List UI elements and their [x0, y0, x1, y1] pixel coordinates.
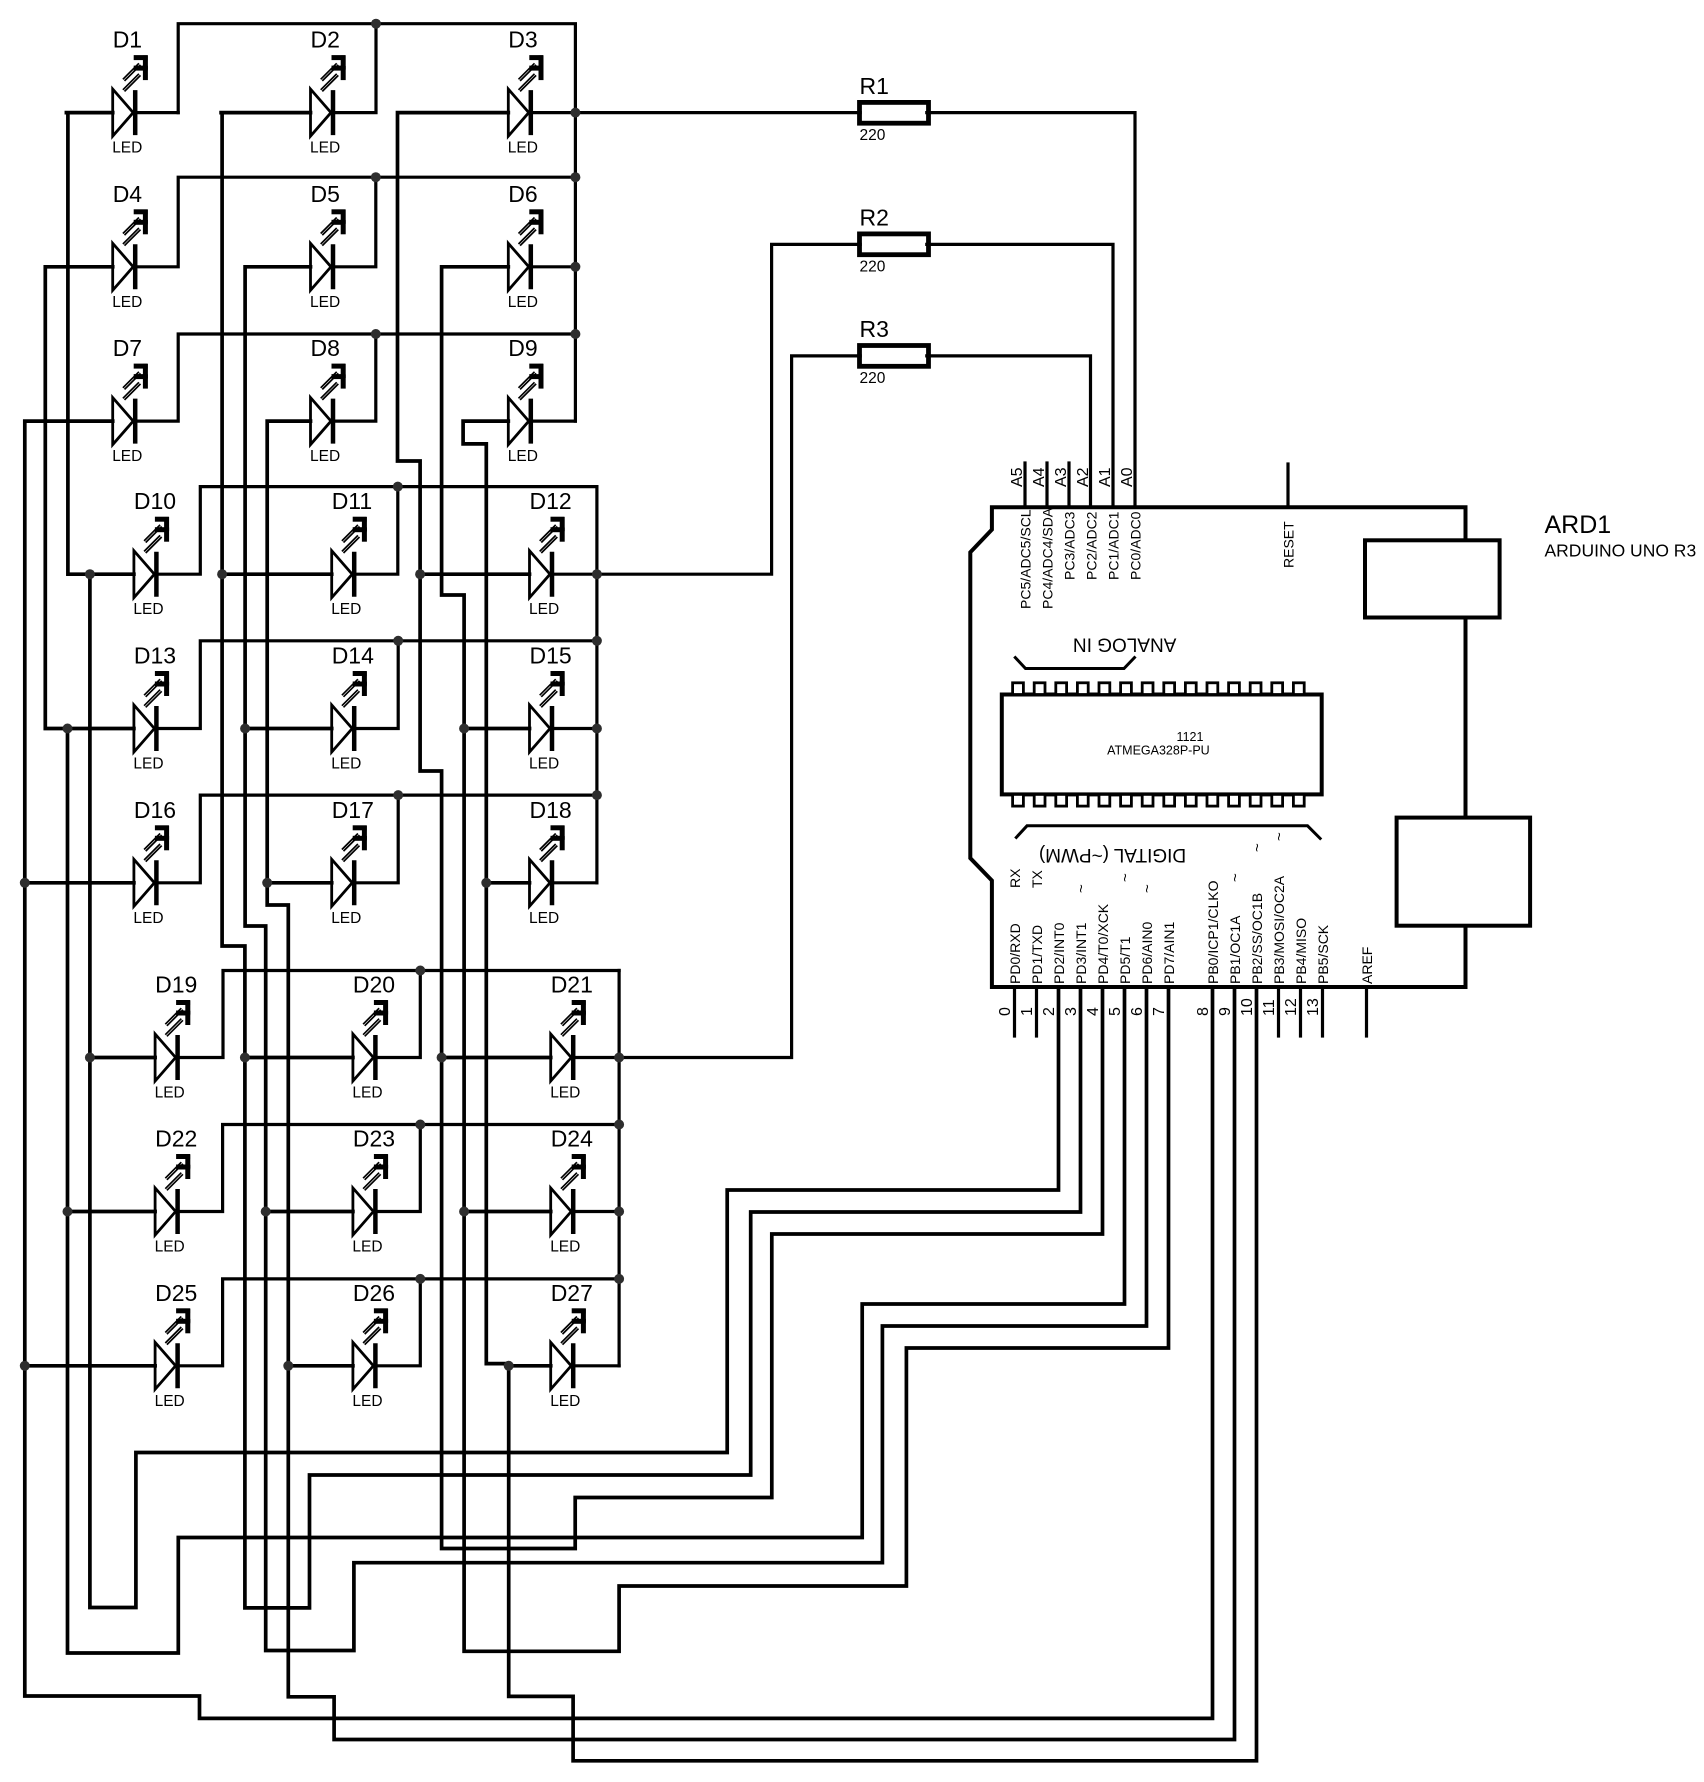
wire column D2-D11-D20 anodes to pin 3	[221, 113, 1080, 1608]
wire layer2 rail row5	[156, 641, 597, 729]
svg-text:2: 2	[1041, 1007, 1058, 1016]
wire D9 cathode	[531, 420, 576, 423]
svg-text:LED: LED	[112, 294, 142, 311]
wire D3 cathode	[531, 111, 576, 114]
svg-text:PD2/INT0: PD2/INT0	[1051, 922, 1067, 984]
wire D17 cathode riser	[354, 795, 398, 883]
svg-text:PB0/ICP1/CLKO: PB0/ICP1/CLKO	[1205, 880, 1221, 984]
LED D22	[155, 1154, 190, 1235]
svg-text:D6: D6	[508, 181, 537, 207]
svg-text:AREF: AREF	[1359, 947, 1375, 984]
svg-text:220: 220	[860, 127, 886, 144]
wire R1 to pin A0	[927, 113, 1135, 508]
svg-text:PB3/MOSI/OC2A: PB3/MOSI/OC2A	[1271, 875, 1287, 984]
wire D18 cathode	[552, 881, 597, 884]
svg-text:RX: RX	[1007, 868, 1023, 888]
pin stub 1	[1035, 987, 1038, 1036]
svg-text:D17: D17	[332, 797, 374, 823]
svg-text:D10: D10	[134, 488, 176, 514]
svg-text:PD5/T1: PD5/T1	[1117, 936, 1133, 984]
svg-text:LED: LED	[352, 1085, 382, 1102]
svg-text:13: 13	[1305, 998, 1322, 1016]
LED D15	[530, 671, 565, 752]
LED D17	[332, 826, 367, 907]
svg-text:PC3/ADC3: PC3/ADC3	[1062, 511, 1078, 580]
svg-text:ANALOG IN: ANALOG IN	[1073, 634, 1176, 655]
wire layer2 bus to R2	[597, 244, 860, 574]
wire layer3 bus to R3	[619, 356, 860, 1058]
LED D7	[113, 364, 148, 445]
svg-text:ATMEGA328P-PU: ATMEGA328P-PU	[1107, 744, 1210, 758]
pin stub 0	[1013, 987, 1016, 1036]
svg-text:D4: D4	[113, 181, 143, 207]
svg-text:PB5/SCK: PB5/SCK	[1315, 924, 1331, 984]
svg-text:LED: LED	[155, 1239, 185, 1256]
wire column D4-D13-D22 anodes to pin 5	[45, 267, 1124, 1653]
wire D15 cathode	[552, 727, 597, 730]
svg-text:LED: LED	[352, 1393, 382, 1410]
wire D27 cathode	[573, 1364, 619, 1367]
svg-text:D27: D27	[551, 1280, 593, 1306]
wire D14 cathode riser	[354, 641, 398, 729]
svg-text:PB4/MISO: PB4/MISO	[1293, 918, 1309, 984]
svg-text:PD7/AIN1: PD7/AIN1	[1161, 922, 1177, 984]
junction dots column 6	[459, 724, 469, 1217]
svg-text:LED: LED	[550, 1393, 580, 1410]
svg-text:D7: D7	[113, 335, 142, 361]
svg-text:LED: LED	[550, 1085, 580, 1102]
pin stub A3	[1067, 463, 1070, 507]
svg-text:~: ~	[1227, 873, 1244, 882]
wire layer3 rail row9	[178, 1279, 619, 1366]
wire column D7-D16-D25 anodes to pin 8	[25, 421, 1213, 1718]
wire column D3-D12-D21 anodes to pin 4	[398, 113, 1103, 1549]
LED D11	[332, 517, 367, 598]
junction dots column 4	[63, 724, 73, 1217]
wire layer2 right bus	[595, 487, 598, 883]
junction dots column 8	[262, 878, 293, 1371]
LED D10	[134, 517, 169, 598]
wire layer1 rail row3	[135, 334, 575, 421]
PWM tilde marks	[1073, 832, 1288, 893]
svg-text:A3: A3	[1053, 467, 1070, 487]
junction dots column 1	[85, 569, 95, 1062]
svg-text:6: 6	[1129, 1007, 1146, 1016]
svg-text:D25: D25	[155, 1280, 197, 1306]
svg-text:DIGITAL (~PWM): DIGITAL (~PWM)	[1039, 844, 1186, 865]
wire D6 cathode	[531, 265, 576, 268]
svg-text:D1: D1	[113, 27, 142, 53]
svg-text:4: 4	[1085, 1007, 1102, 1016]
pin labels A5-A0	[1009, 467, 1136, 487]
svg-text:D9: D9	[508, 335, 537, 361]
svg-text:LED: LED	[155, 1085, 185, 1102]
svg-text:LED: LED	[133, 756, 163, 773]
svg-text:A4: A4	[1031, 467, 1048, 487]
LED D1	[113, 55, 148, 136]
svg-text:A1: A1	[1097, 467, 1114, 487]
svg-text:PD6/AIN0: PD6/AIN0	[1139, 922, 1155, 984]
svg-text:5: 5	[1107, 1007, 1124, 1016]
LED D26	[353, 1309, 388, 1390]
svg-text:D24: D24	[551, 1126, 593, 1152]
pin numbers 0-13	[997, 998, 1322, 1016]
svg-text:D12: D12	[530, 488, 572, 514]
svg-text:D21: D21	[551, 972, 593, 998]
svg-text:D5: D5	[311, 181, 340, 207]
svg-text:LED: LED	[310, 448, 340, 465]
wire D26 cathode riser	[375, 1279, 420, 1366]
LED D24	[551, 1154, 586, 1235]
svg-text:~: ~	[1139, 884, 1156, 893]
pin stub 11	[1277, 987, 1280, 1036]
LED D19	[155, 1000, 190, 1081]
wire column D5-D14-D23 anodes to pin 6	[245, 267, 1146, 1651]
wire D23 cathode riser	[375, 1125, 420, 1212]
svg-text:PD4/T0/XCK: PD4/T0/XCK	[1095, 903, 1111, 984]
svg-text:ARD1: ARD1	[1545, 511, 1612, 539]
svg-text:9: 9	[1217, 1007, 1234, 1016]
wire D24 cathode	[573, 1210, 619, 1213]
junction dots column 7	[20, 878, 30, 1371]
svg-text:LED: LED	[529, 910, 559, 927]
junction dots layer3 net	[415, 966, 624, 1284]
pin stub AREF	[1365, 987, 1368, 1036]
svg-text:220: 220	[860, 370, 886, 387]
svg-text:RESET: RESET	[1281, 521, 1297, 568]
svg-text:11: 11	[1261, 999, 1278, 1016]
wire column D6-D15-D24 anodes to pin 7	[442, 267, 1169, 1652]
wire layer1 riser and top rail and right bus	[178, 24, 575, 421]
svg-text:~: ~	[1249, 843, 1266, 852]
wire D21 cathode	[573, 1056, 619, 1059]
svg-text:R1: R1	[860, 73, 889, 99]
pin stub RESET	[1286, 464, 1289, 507]
LED D18	[530, 826, 565, 907]
svg-text:LED: LED	[310, 140, 340, 157]
svg-text:D19: D19	[155, 972, 197, 998]
LED D2	[311, 55, 346, 136]
svg-text:LED: LED	[331, 910, 361, 927]
wire D11 cathode riser	[354, 487, 398, 575]
svg-text:~: ~	[1271, 832, 1288, 841]
svg-text:12: 12	[1283, 998, 1300, 1016]
svg-text:LED: LED	[508, 294, 538, 311]
pin stub A5	[1023, 463, 1026, 507]
analog bracket	[1014, 657, 1135, 669]
svg-text:LED: LED	[133, 910, 163, 927]
pin stub 12	[1299, 987, 1302, 1036]
svg-text:1: 1	[1019, 1007, 1036, 1016]
pin stub A4	[1045, 463, 1048, 507]
svg-text:LED: LED	[508, 140, 538, 157]
LED D23	[353, 1154, 388, 1235]
svg-text:3: 3	[1063, 1007, 1080, 1016]
wire D5 cathode riser	[333, 177, 376, 267]
svg-text:LED: LED	[331, 601, 361, 618]
svg-text:PD1/TXD: PD1/TXD	[1029, 925, 1045, 984]
LED D25	[155, 1309, 190, 1390]
svg-text:PB1/OC1A: PB1/OC1A	[1227, 915, 1243, 984]
wire D2 cathode riser	[333, 24, 376, 113]
svg-text:PD3/INT1: PD3/INT1	[1073, 922, 1089, 984]
wire column D1-D10-D19 anodes to pin 2	[66, 113, 1058, 1608]
svg-text:~: ~	[1117, 873, 1134, 882]
wire D12 cathode	[552, 573, 597, 576]
svg-text:LED: LED	[352, 1239, 382, 1256]
svg-text:0: 0	[997, 1007, 1014, 1016]
junction dots column 9	[481, 878, 513, 1371]
svg-text:LED: LED	[133, 601, 163, 618]
svg-text:A0: A0	[1119, 467, 1136, 487]
digital bracket	[1015, 826, 1321, 840]
IC ATMEGA328P-PU	[1002, 683, 1322, 806]
svg-text:PC2/ADC2: PC2/ADC2	[1084, 511, 1100, 580]
wire D20 cathode riser	[375, 971, 420, 1058]
power connector	[1397, 818, 1531, 926]
svg-text:D20: D20	[353, 972, 395, 998]
svg-text:LED: LED	[112, 140, 142, 157]
svg-text:10: 10	[1239, 998, 1256, 1016]
svg-text:R2: R2	[860, 204, 889, 230]
svg-text:D16: D16	[134, 797, 176, 823]
wire layer3 rail row8	[178, 1125, 619, 1212]
svg-text:A2: A2	[1075, 467, 1092, 487]
LED D27	[551, 1309, 586, 1390]
junction dots column 3	[415, 569, 447, 1062]
svg-text:D15: D15	[530, 643, 572, 669]
svg-text:PC5/ADC5/SCL: PC5/ADC5/SCL	[1018, 509, 1034, 609]
wire layer2 rail row6	[156, 795, 597, 883]
svg-text:A5: A5	[1009, 467, 1026, 487]
wire D19 cathode riser and layer3 rail	[178, 971, 619, 1058]
wire layer1 rail row2	[135, 177, 575, 267]
svg-text:D18: D18	[530, 797, 572, 823]
svg-text:~: ~	[1073, 884, 1090, 893]
svg-text:220: 220	[860, 258, 886, 275]
LED D14	[332, 671, 367, 752]
LED D4	[113, 210, 148, 291]
resistor R1 220 ohm	[860, 102, 929, 123]
wire R3 to pin A2	[927, 356, 1091, 507]
svg-text:8: 8	[1195, 1007, 1212, 1016]
svg-text:PD0/RXD: PD0/RXD	[1007, 923, 1023, 984]
svg-text:LED: LED	[155, 1393, 185, 1410]
svg-text:LED: LED	[310, 294, 340, 311]
wire layer3 right bus	[617, 971, 620, 1366]
resistor R2 220 ohm	[860, 234, 929, 255]
LED D8	[311, 364, 346, 445]
pin labels PD0..PB5 digital port	[1007, 868, 1375, 984]
resistor R3 220 ohm	[860, 346, 929, 367]
wire D1 cathode to rail	[135, 111, 178, 114]
LED D6	[508, 210, 543, 291]
svg-text:TX: TX	[1029, 869, 1045, 888]
svg-text:D13: D13	[134, 643, 176, 669]
svg-text:PC0/ADC0: PC0/ADC0	[1128, 511, 1144, 580]
wire layer1 to R1	[575, 111, 860, 114]
svg-text:PC1/ADC1: PC1/ADC1	[1106, 511, 1122, 580]
pin labels PC5..PC0 analog port	[1018, 507, 1297, 609]
LED D16	[134, 826, 169, 907]
LED D9	[508, 364, 543, 445]
svg-text:PC4/ADC4/SDA: PC4/ADC4/SDA	[1040, 507, 1056, 609]
junction dots column 5	[240, 724, 271, 1217]
svg-text:1121: 1121	[1177, 730, 1204, 744]
svg-text:LED: LED	[529, 756, 559, 773]
svg-text:D14: D14	[332, 643, 374, 669]
svg-text:LED: LED	[331, 756, 361, 773]
junction dots column 2	[217, 569, 250, 1062]
svg-text:D23: D23	[353, 1126, 395, 1152]
LED D13	[134, 671, 169, 752]
Arduino Uno R3 ARD1 body outline	[970, 507, 1465, 987]
LED D5	[311, 210, 346, 291]
svg-text:ARDUINO UNO R3: ARDUINO UNO R3	[1545, 541, 1697, 561]
svg-text:D11: D11	[332, 488, 373, 514]
pin stub 13	[1321, 987, 1324, 1036]
wire column D9-D18-D27 anodes to pin 10	[463, 421, 1256, 1761]
wire D10 cathode riser and layer2 rail	[156, 487, 597, 575]
USB connector	[1365, 540, 1500, 617]
svg-text:R3: R3	[860, 316, 889, 342]
svg-text:D8: D8	[311, 335, 340, 361]
svg-text:D26: D26	[353, 1280, 395, 1306]
svg-text:LED: LED	[529, 601, 559, 618]
svg-text:7: 7	[1151, 1007, 1168, 1016]
svg-text:D22: D22	[155, 1126, 197, 1152]
junction dots layer1 net	[371, 19, 581, 339]
svg-text:D3: D3	[508, 27, 537, 53]
junction dots layer2 net	[393, 482, 602, 800]
LED D12	[530, 517, 565, 598]
svg-text:LED: LED	[550, 1239, 580, 1256]
svg-text:D2: D2	[311, 27, 340, 53]
svg-text:PB2/SS/OC1B: PB2/SS/OC1B	[1249, 893, 1265, 984]
wire D8 cathode riser	[333, 334, 376, 421]
svg-text:LED: LED	[112, 448, 142, 465]
LED D21	[551, 1000, 586, 1081]
wire R2 to pin A1	[927, 244, 1113, 507]
LED D3	[508, 55, 543, 136]
LED D20	[353, 1000, 388, 1081]
svg-text:LED: LED	[508, 448, 538, 465]
wire column D8-D17-D26 anodes to pin 9	[267, 421, 1234, 1739]
